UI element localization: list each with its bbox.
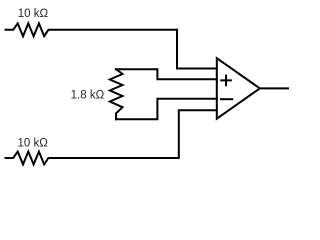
wire: R3 top terminal to op-amp + input	[116, 69, 217, 79]
resistor R1 10 kΩ (top) with wire to op-amp	[6, 23, 217, 68]
op-amp + input marker	[221, 76, 231, 86]
svg-text:1.8 kΩ: 1.8 kΩ	[71, 90, 105, 102]
svg-text:10 kΩ: 10 kΩ	[18, 138, 49, 150]
wire: op-amp output	[260, 87, 288, 89]
op-amp U1 triangle	[217, 58, 260, 118]
op-amp - input marker	[221, 98, 232, 100]
svg-text:10 kΩ: 10 kΩ	[18, 8, 49, 20]
resistor R3 1.8 kΩ (vertical zigzag)	[110, 69, 123, 119]
resistor R2 10 kΩ (bottom) with wire to op-amp	[6, 110, 217, 164]
wire: R3 bottom terminal to op-amp - input	[116, 99, 217, 120]
